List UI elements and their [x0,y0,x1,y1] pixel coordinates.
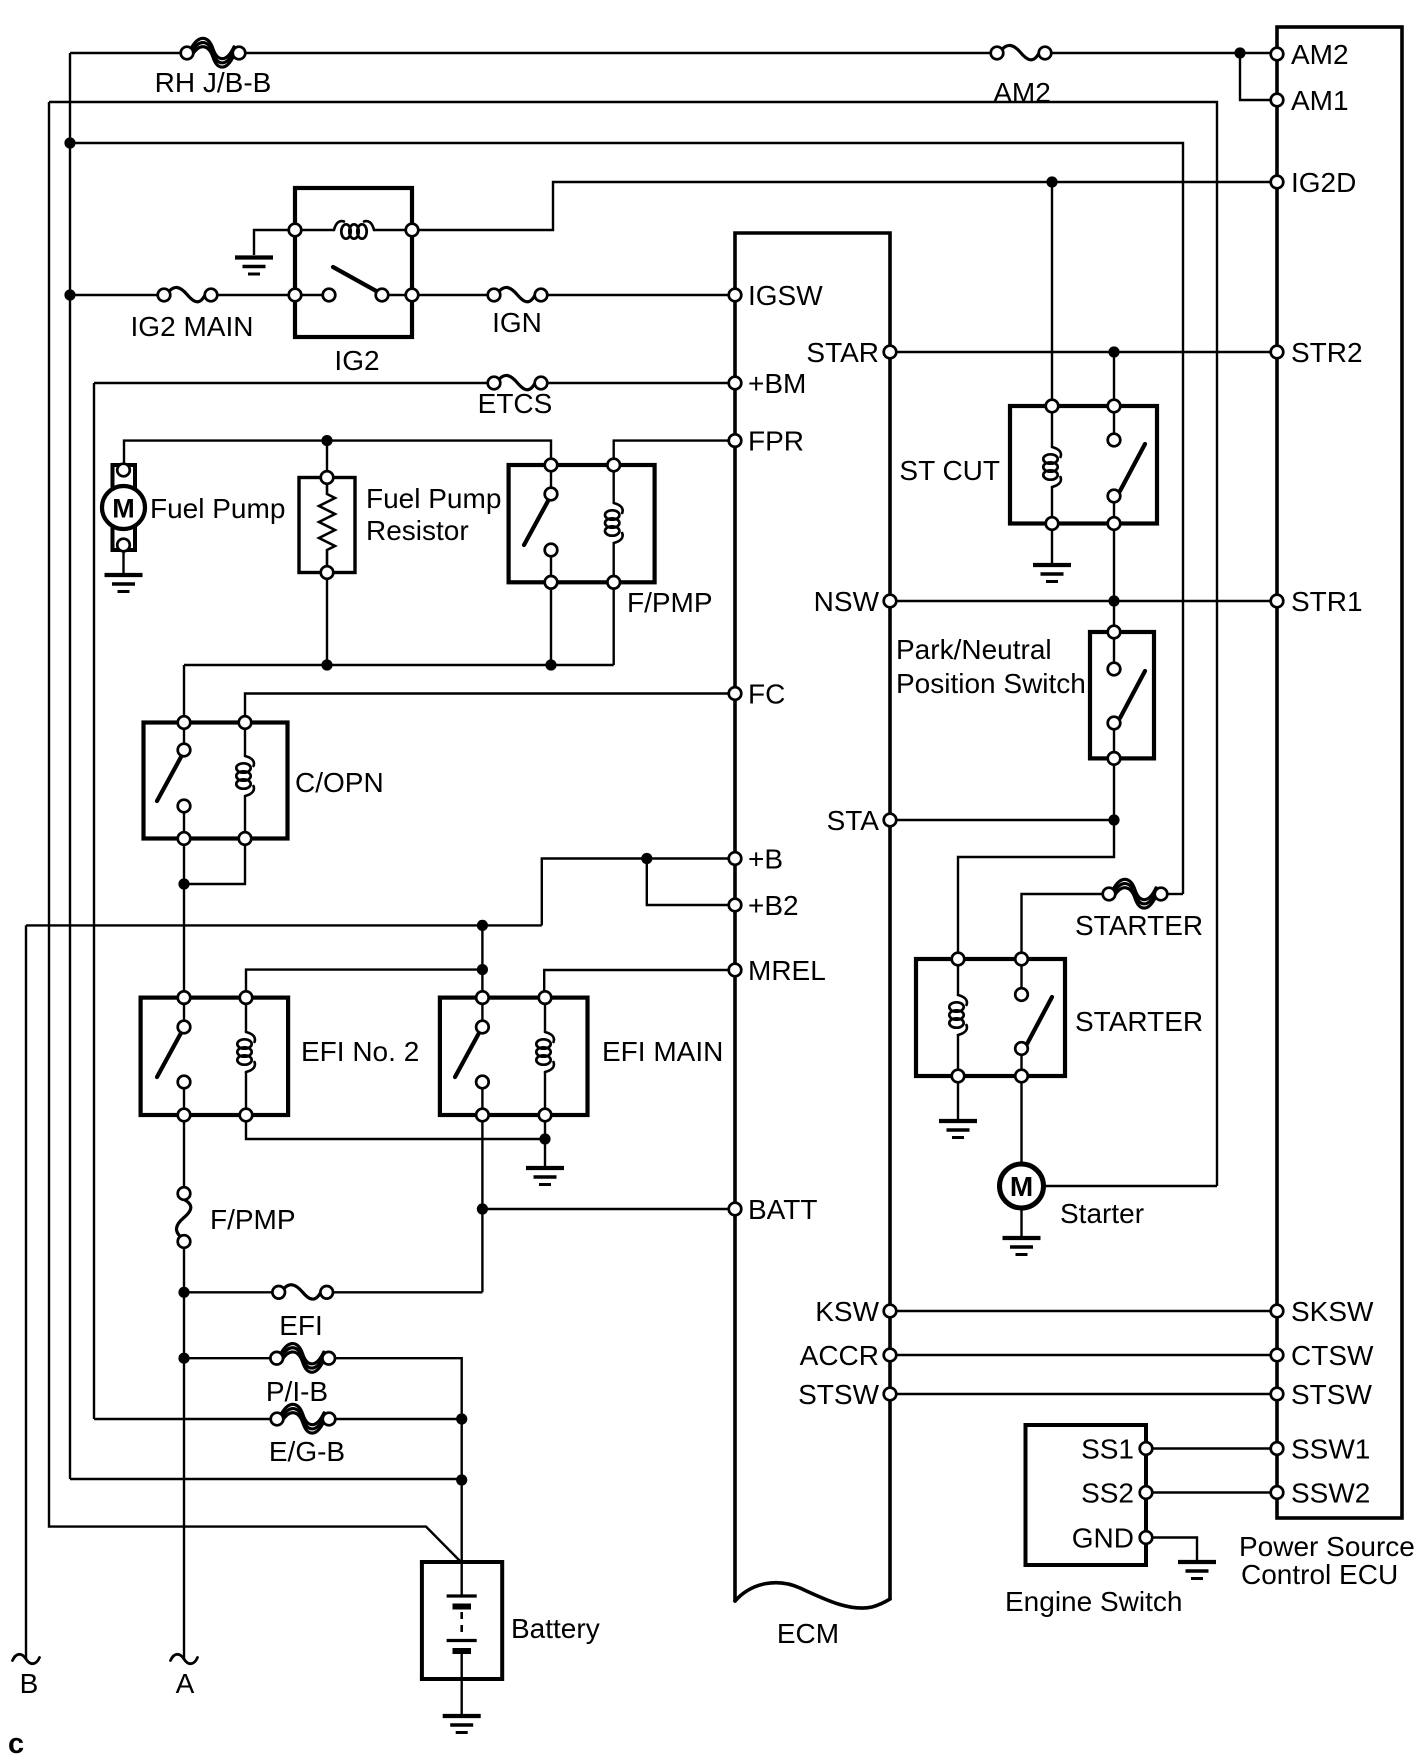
svg-text:FPR: FPR [748,426,804,457]
svg-text:Control ECU: Control ECU [1241,1559,1398,1590]
svg-text:M: M [1010,1171,1033,1202]
svg-text:E/G-B: E/G-B [269,1436,345,1467]
svg-text:c: c [8,1728,24,1760]
svg-text:F/PMP: F/PMP [627,587,713,618]
svg-text:+B2: +B2 [748,890,799,921]
svg-text:SSW1: SSW1 [1291,1434,1370,1465]
svg-text:Starter: Starter [1060,1198,1144,1229]
svg-text:B: B [20,1668,39,1699]
svg-text:SS1: SS1 [1081,1434,1134,1465]
svg-text:Engine Switch: Engine Switch [1005,1586,1182,1617]
svg-text:ACCR: ACCR [800,1340,879,1371]
svg-text:+BM: +BM [748,368,806,399]
svg-text:Position Switch: Position Switch [896,668,1086,699]
svg-text:KSW: KSW [815,1296,879,1327]
svg-text:NSW: NSW [814,586,880,617]
svg-text:STARTER: STARTER [1075,1006,1203,1037]
svg-text:GND: GND [1072,1523,1134,1554]
svg-text:P/I-B: P/I-B [266,1376,328,1407]
svg-text:Fuel Pump: Fuel Pump [150,493,285,524]
svg-text:MREL: MREL [748,955,826,986]
svg-text:CTSW: CTSW [1291,1340,1374,1371]
svg-text:RH J/B-B: RH J/B-B [155,67,272,98]
svg-text:M: M [112,494,135,524]
svg-text:EFI MAIN: EFI MAIN [602,1036,723,1067]
svg-text:ECM: ECM [777,1618,839,1649]
svg-text:EFI No. 2: EFI No. 2 [301,1036,419,1067]
svg-text:IGSW: IGSW [748,280,823,311]
svg-text:Resistor: Resistor [366,515,469,546]
svg-text:Battery: Battery [511,1613,600,1644]
svg-text:AM2: AM2 [1291,39,1349,70]
svg-text:STSW: STSW [1291,1379,1372,1410]
svg-text:ST CUT: ST CUT [899,455,1000,486]
svg-text:AM2: AM2 [993,77,1051,108]
svg-text:IG2: IG2 [334,345,379,376]
svg-text:ETCS: ETCS [478,388,553,419]
svg-text:Fuel Pump: Fuel Pump [366,483,501,514]
svg-text:F/PMP: F/PMP [210,1204,296,1235]
svg-text:BATT: BATT [748,1194,817,1225]
svg-text:C/OPN: C/OPN [295,767,384,798]
svg-text:SS2: SS2 [1081,1478,1134,1509]
svg-text:STR2: STR2 [1291,337,1363,368]
svg-text:SSW2: SSW2 [1291,1478,1370,1509]
svg-text:FC: FC [748,679,785,710]
svg-text:SKSW: SKSW [1291,1296,1374,1327]
svg-text:A: A [176,1668,195,1699]
svg-text:STR1: STR1 [1291,586,1363,617]
svg-text:AM1: AM1 [1291,85,1349,116]
svg-text:STSW: STSW [798,1379,879,1410]
svg-text:STARTER: STARTER [1075,910,1203,941]
svg-text:IG2 MAIN: IG2 MAIN [131,311,254,342]
svg-text:EFI: EFI [279,1310,323,1341]
svg-text:Park/Neutral: Park/Neutral [896,634,1052,665]
svg-text:STAR: STAR [806,337,879,368]
svg-text:IG2D: IG2D [1291,167,1356,198]
svg-text:STA: STA [827,805,880,836]
svg-text:+B: +B [748,844,783,875]
svg-text:Power Source: Power Source [1239,1531,1415,1562]
svg-text:IGN: IGN [492,307,542,338]
